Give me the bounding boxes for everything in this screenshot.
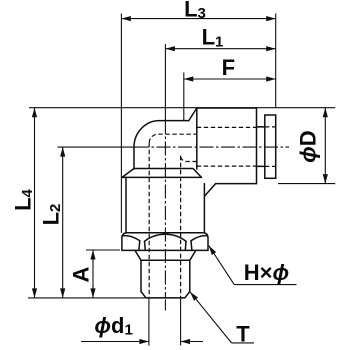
dimension L2 xyxy=(39,147,66,298)
svg-text:F: F xyxy=(222,55,235,80)
F extension line xyxy=(183,73,185,121)
hidden bore bend lower arc and bottom line xyxy=(181,156,197,162)
svg-text:T: T xyxy=(236,321,250,346)
top extension line xyxy=(29,107,335,109)
thread top chamfer cone xyxy=(135,250,196,260)
svg-text:L4: L4 xyxy=(11,188,37,210)
hidden bore right line xyxy=(180,156,182,297)
svg-text:H×ϕ: H×ϕ xyxy=(244,260,289,285)
phid1 right extension line xyxy=(180,299,182,346)
svg-text:ϕD: ϕD xyxy=(295,130,320,163)
dimension L3 xyxy=(121,0,275,22)
dimension phiD xyxy=(295,108,328,184)
elbow body outer arc and top edge xyxy=(134,108,197,169)
thread body edges xyxy=(141,260,190,291)
port body rectangle xyxy=(197,108,257,184)
thread bottom chamfer xyxy=(141,292,190,298)
vertical centerline / L1 extension xyxy=(164,44,166,120)
L3 left extension line xyxy=(120,14,122,233)
hex face boundary lines xyxy=(139,241,192,251)
phid1 left extension line xyxy=(148,299,150,346)
svg-text:L1: L1 xyxy=(202,25,224,51)
hidden cavity bottom line xyxy=(197,165,257,167)
body lower bevel and stem right edge xyxy=(204,184,215,233)
dimension A xyxy=(69,250,96,298)
horizontal centerline / L2 extension xyxy=(58,146,136,148)
svg-text:ϕd1: ϕd1 xyxy=(94,313,132,339)
A extension line xyxy=(86,249,120,251)
hidden bore through collet top xyxy=(258,126,275,128)
hidden bore bend upper arc and top line xyxy=(149,134,197,143)
bottom extension line xyxy=(28,297,185,299)
flared skirt xyxy=(122,169,202,178)
hidden bore left line xyxy=(148,143,150,297)
dimension F xyxy=(184,55,276,82)
hex nut outline xyxy=(122,233,208,251)
hidden bore through collet bottom xyxy=(258,165,275,167)
label H x phi with leader xyxy=(209,246,297,285)
hex chamfer arcs xyxy=(123,234,207,241)
dimension L1 xyxy=(165,25,275,52)
stem left edge xyxy=(125,177,127,233)
hidden cavity top line xyxy=(197,126,257,128)
dimension phid1 xyxy=(81,313,203,344)
right extension line for L3 L1 F xyxy=(275,14,277,108)
label T with leader xyxy=(190,292,254,347)
phiD bottom extension line xyxy=(278,183,335,185)
neck between body and collet xyxy=(257,127,265,166)
release collet ring xyxy=(265,115,276,178)
svg-text:L2: L2 xyxy=(39,204,65,226)
svg-text:A: A xyxy=(69,266,94,282)
svg-text:L3: L3 xyxy=(184,0,206,22)
dimension L4 xyxy=(11,108,38,298)
